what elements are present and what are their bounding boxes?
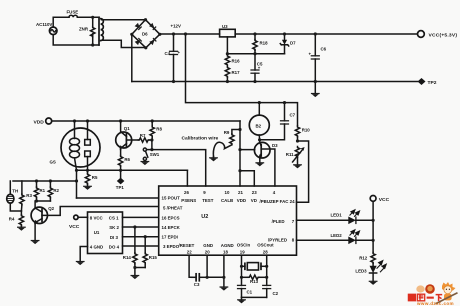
ground under LED3 [369,281,378,285]
ground U1 GND [76,247,88,266]
ground under C1 C2 [237,297,267,303]
capacitor C4 [165,32,181,83]
svg-text:15 POUT: 15 POUT [162,195,181,200]
svg-text:R15: R15 [149,255,158,260]
svg-text:TP1: TP1 [116,185,125,190]
wire pin 28 OSCout [265,255,268,285]
resistor R9 [224,128,242,145]
svg-text:U1: U1 [94,230,100,235]
IC U1 [88,212,123,254]
capacitor C2 [262,285,279,297]
svg-text:TH: TH [12,189,18,194]
svg-text:R8: R8 [156,126,162,131]
wire TEST line to pin 9 [152,150,206,186]
svg-text:C1: C1 [247,290,253,295]
svg-text:www.dzsc.com: www.dzsc.com [416,301,454,306]
U2 pin 19 OSCin [237,243,251,255]
+12V rail [160,33,220,35]
svg-text:C2: C2 [273,291,279,296]
bridge rectifier D6 [130,18,161,49]
wire pin 20 GND [206,255,224,279]
svg-text:VCC: VCC [69,224,80,230]
U2 pin 26 PSENS [181,190,196,203]
terminal VCC for LEDs [370,196,389,253]
svg-text:C4: C4 [165,51,171,56]
svg-text:LED1: LED1 [331,213,343,218]
svg-text:+: + [178,50,181,55]
capacitor C7 [260,101,296,140]
resistor R5 [85,169,98,184]
resistor R18 [253,32,268,55]
varistor ZNR [79,16,95,47]
wire bridge negative to ground rail [131,34,133,81]
thermistor TH [7,181,22,211]
svg-text:R6: R6 [124,157,130,162]
svg-text:16 EPCS: 16 EPCS [162,215,180,220]
sensor electrode lower [85,151,91,170]
wire VDD drop to pins 21 23 [238,121,254,186]
wire DI to EPDI [123,235,159,238]
ground under R4 [17,227,26,231]
svg-text:DO 4: DO 4 [109,245,120,250]
svg-text:5 /PHEAT: 5 /PHEAT [163,205,183,210]
resistor R1 [34,181,45,201]
ground under R11 [293,165,302,169]
terminal TP1 [116,170,125,190]
svg-text:LED2: LED2 [331,233,343,238]
sensor signal line [75,169,187,186]
resistor R13 [242,275,267,284]
resistor R2 [48,181,59,201]
U2 pin 10 CALB [221,190,233,203]
terminal VCC(+5.3V) [418,31,458,39]
capacitor C3 [192,274,207,287]
ground under calibration wire [209,157,218,162]
resistor R10 [259,103,310,141]
terminal TP2 [418,78,437,86]
svg-text:VD: VD [251,198,257,203]
svg-text:4 GND: 4 GND [90,245,103,250]
resistor R6 [118,150,130,171]
ground AGND pin 18 [220,255,229,290]
U2 pin 28 OSCout [257,243,274,255]
svg-text:PSENS: PSENS [181,198,196,203]
transistor Q2 [31,206,55,224]
AC source AC110V [36,22,57,35]
LED LED2 [348,230,374,244]
wire Q2 base to PHEAT [42,207,159,216]
svg-text:R16: R16 [232,59,241,64]
wire stub to Q3 [240,149,255,151]
wire /PYRLED to LED2 [297,233,349,241]
wire collector tie line [35,199,51,208]
svg-text:Q2: Q2 [48,206,54,211]
svg-text:U3: U3 [222,24,228,29]
regulator U3 [220,24,418,54]
svg-text:8 VCC: 8 VCC [90,215,104,220]
IC U2 [159,186,297,255]
svg-text:VDD: VDD [237,198,246,203]
wire Q3 base to pin 4 [261,149,275,186]
svg-text:D7: D7 [290,41,296,46]
wire POUT line [77,197,159,200]
wire pin 19 OSCin [240,255,243,285]
svg-text:SW1: SW1 [150,152,160,157]
terminal VCC for U1 [69,215,88,230]
ground under C6 [311,82,320,98]
wire SK to EPCK [123,225,159,228]
svg-text:R1: R1 [40,188,46,193]
svg-text:/RESET: /RESET [179,243,195,248]
ground under R5 [83,184,92,190]
U2 pin 21 VDD [237,190,246,203]
wire DO to EPDO [123,245,159,247]
wire transformer bottom to bridge [102,40,146,47]
U2 pin 23 VD [251,190,257,203]
svg-text:28: 28 [263,249,268,254]
svg-text:21: 21 [238,190,243,195]
ground under Q2 [31,224,40,245]
transformer TNR winding [99,17,103,45]
svg-text:C7: C7 [290,113,296,118]
zener diode D7 [280,32,296,53]
svg-text:FUSE: FUSE [67,10,79,15]
lower bias line [13,179,77,182]
wire CS to EPCS [123,216,159,218]
svg-text:R12: R12 [359,256,368,261]
svg-text:R13: R13 [250,279,259,284]
svg-text:D6: D6 [142,32,148,37]
wire VDD line [52,119,240,122]
svg-text:OSCout: OSCout [257,243,274,248]
resistor R14 [123,227,137,268]
wire pin 22 reset [189,255,192,277]
svg-text:3 EPDO: 3 EPDO [163,244,180,249]
svg-text:C3: C3 [194,282,200,287]
crystal X1 [242,263,267,270]
svg-text:14 EPCK: 14 EPCK [162,225,181,230]
wire sensor node drop [75,170,78,198]
resistor R15 [143,237,157,268]
LED LED3 [355,261,386,282]
svg-text:R17: R17 [232,70,241,75]
svg-text:AGND: AGND [221,243,234,248]
svg-text:ZNR: ZNR [79,27,89,32]
LED LED1 [348,210,374,224]
wire R7R8 junction to test line [151,140,153,150]
svg-text:TP2: TP2 [428,80,437,86]
svg-text:GND: GND [203,243,213,248]
svg-text:22: 22 [187,249,192,254]
U2 pin 7 /PLED [272,219,295,224]
svg-text:VCC(+5.3V): VCC(+5.3V) [429,32,458,38]
svg-text:+12V: +12V [171,24,181,29]
svg-text:18: 18 [223,249,228,254]
svg-text:R14: R14 [123,255,132,260]
svg-text:23: 23 [252,190,257,195]
resistor R17 [225,52,240,83]
svg-text:R5: R5 [92,175,98,180]
watermark logo [408,282,457,306]
svg-text:TEST: TEST [202,198,214,203]
U2 pin 4 PBUZ FAC 24 [260,190,296,204]
svg-text:10: 10 [225,190,230,195]
U2 pin 8 /PYRLED [268,238,295,243]
svg-text:R9: R9 [224,130,230,135]
svg-text:20: 20 [205,249,210,254]
wire AC top [53,17,69,27]
wire FAC 24 riser [297,141,309,202]
svg-text:R18: R18 [260,41,269,46]
svg-text:19: 19 [240,249,245,254]
capacitor C6 [309,32,327,83]
transistor Q3 D3 [254,138,278,158]
svg-text:B2: B2 [256,123,262,128]
svg-text:SK 2: SK 2 [109,225,119,230]
ground under SW1 [141,161,150,166]
ground under R14 R15 [131,266,146,279]
resistor R16 [225,55,240,66]
terminal VDD [34,118,52,125]
svg-text:R10: R10 [302,127,311,132]
ground rail bottom [132,81,418,83]
U2 pin 18 AGND [221,243,234,254]
svg-text:R7: R7 [140,133,146,138]
sensor electrode upper [85,121,91,145]
wire +12V drop to buzzer net [184,32,259,102]
svg-text:R4: R4 [9,217,15,222]
svg-text:GS: GS [50,160,56,165]
resistor R3 [20,181,33,211]
wire transformer top to bridge [102,19,146,21]
svg-text:CALB: CALB [221,198,233,203]
svg-text:AC110V: AC110V [36,22,52,27]
transistor Q1 [116,121,132,150]
svg-text:DI 3: DI 3 [110,235,119,240]
svg-text:R2: R2 [53,188,59,193]
switch SW1 [143,148,159,160]
capacitor C1 [237,285,253,297]
svg-text:D3: D3 [272,143,278,148]
svg-text:26: 26 [184,190,189,195]
svg-text:C6: C6 [321,47,327,52]
svg-text:/PLED: /PLED [272,219,285,224]
svg-text:Calibration wire: Calibration wire [182,135,219,141]
calibration wire loop [213,142,232,156]
svg-text:+: + [258,66,261,71]
resistor R7 [126,133,151,142]
fuse FUSE [67,10,79,18]
U2 pin 20 GND [203,243,213,254]
svg-text:/PBUZEP FAC 24: /PBUZEP FAC 24 [260,199,296,204]
wire fuse to transformer [77,16,99,18]
capacitor C5 [250,54,263,83]
svg-text:17 EPDI: 17 EPDI [162,234,178,239]
U2 pin 22 /RESET [179,243,195,254]
resistor R8 [150,121,162,142]
resistor R12 [359,253,375,266]
svg-text:R3: R3 [26,193,32,198]
svg-text:OSCin: OSCin [237,243,251,248]
svg-text:+: + [309,52,312,57]
trimmer resistor R11 [286,139,305,164]
buzzer B2 [249,101,269,140]
svg-text:LED3: LED3 [355,269,367,274]
svg-text:VCC: VCC [379,197,390,203]
svg-text:Q1: Q1 [124,126,130,131]
resistor R4 [9,211,24,227]
gas sensor GS [50,128,101,167]
svg-text:VDD: VDD [34,119,45,125]
sensor heater coil [70,121,80,170]
svg-text:CS 1: CS 1 [109,215,119,220]
ground under Q3 [255,158,264,166]
wire AC bottom [53,35,99,45]
U2 pin 9 TEST [202,190,214,203]
svg-text:R11: R11 [286,152,294,157]
svg-text:U2: U2 [201,214,208,220]
wire /PLED to LED1 [297,213,349,221]
